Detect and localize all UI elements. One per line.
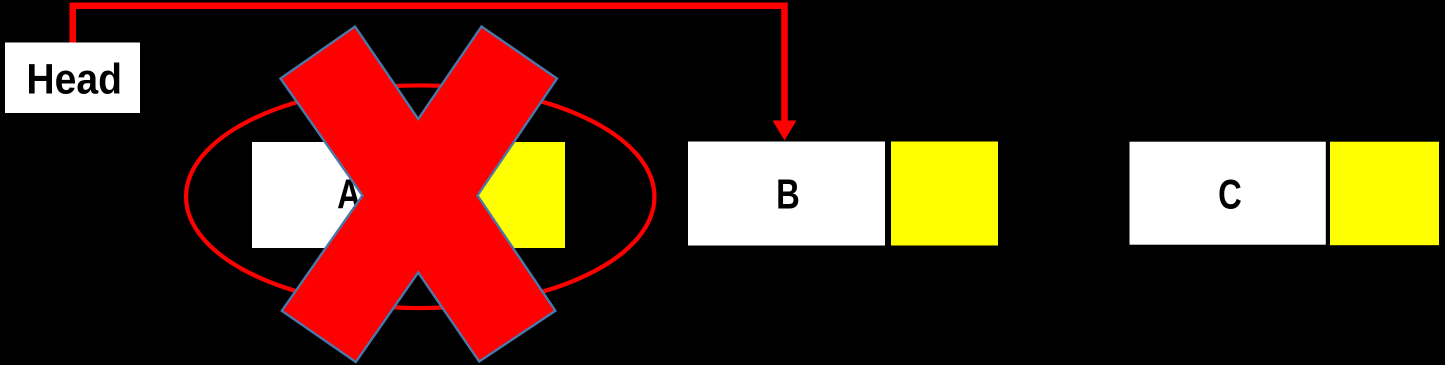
svg-text:B: B xyxy=(776,171,800,218)
svg-text:Head: Head xyxy=(26,55,122,103)
svg-text:C: C xyxy=(1218,171,1242,218)
